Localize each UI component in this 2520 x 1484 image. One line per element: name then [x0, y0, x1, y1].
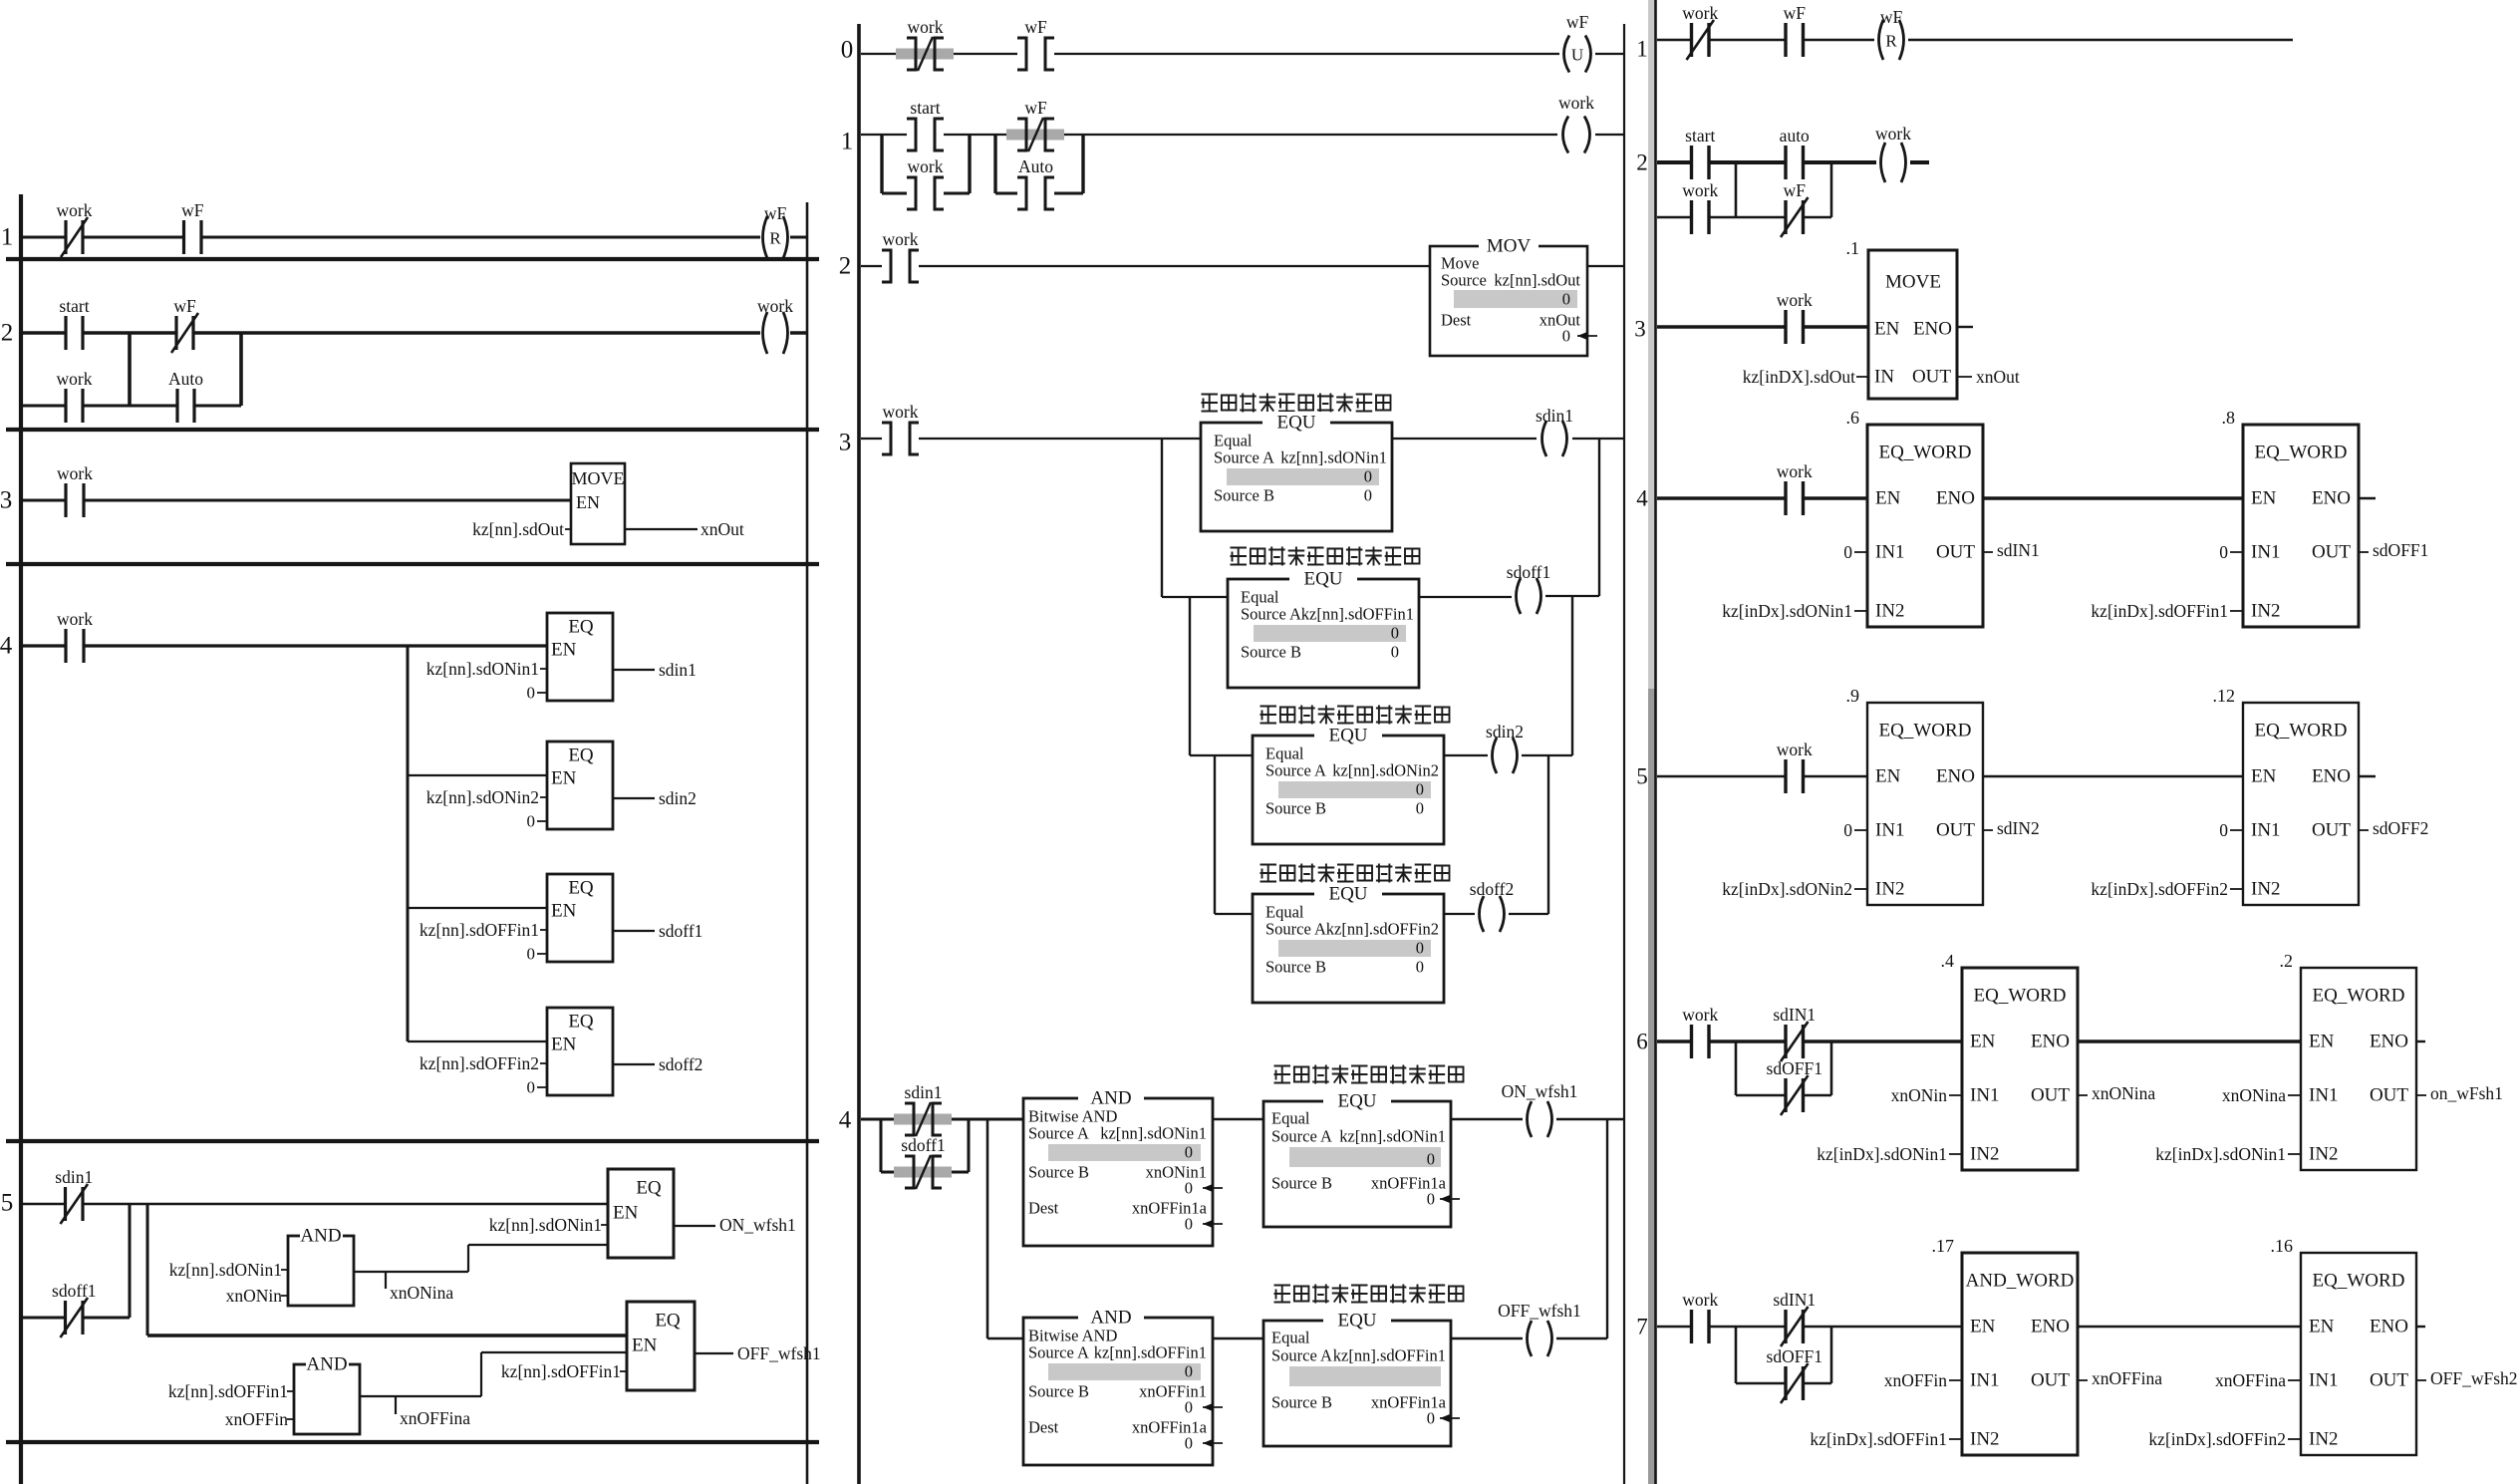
svg-text:0: 0: [1185, 1215, 1193, 1234]
contact sdIN1 NC (right rung 7): [1773, 1290, 1816, 1346]
AND_WORD block .17 (right rung 7): [1962, 1253, 2078, 1455]
cascade vertical sdin2-sdoff2 (middle rung 3): [1547, 755, 1549, 914]
contact wF NO (right rung 1): [1784, 3, 1807, 57]
wire OFF row (left rung 5): [147, 1334, 627, 1336]
svg-text:EQ: EQ: [568, 745, 594, 766]
caption Chinese (middle rung 3 EQU2): [1231, 547, 1420, 566]
svg-text:sdOFF1: sdOFF1: [1767, 1058, 1822, 1078]
svg-text:OFF_wfsh1: OFF_wfsh1: [1498, 1301, 1581, 1321]
svg-text:4: 4: [839, 1107, 852, 1134]
svg-text:sdoff1: sdoff1: [1507, 562, 1550, 582]
svg-text:2: 2: [1, 320, 14, 347]
svg-text:AND: AND: [300, 1226, 341, 1247]
wire AND2-EQU2 (middle rung 4): [1213, 1337, 1263, 1339]
svg-text:R: R: [1885, 32, 1897, 51]
svg-text:work: work: [1777, 290, 1813, 310]
svg-text:Source A: Source A: [1271, 1127, 1332, 1146]
svg-text:Source B: Source B: [1028, 1382, 1089, 1401]
contact work NO (left rung 3): [57, 463, 93, 517]
EQU block 2 (middle rung 3): [1228, 579, 1419, 688]
caption Chinese (middle rung 3 EQU3): [1260, 706, 1450, 725]
svg-text:kz[inDx].sdONin1: kz[inDx].sdONin1: [2155, 1144, 2286, 1164]
svg-text:Source A: Source A: [1265, 920, 1326, 939]
wire branch (right rung 2): [1657, 216, 1692, 219]
contact wF NC highlighted (middle rung 1): [1006, 98, 1064, 151]
svg-text:Dest: Dest: [1028, 1199, 1059, 1218]
svg-text:work: work: [908, 17, 944, 37]
svg-text:ENO: ENO: [2031, 1317, 2070, 1337]
contact work NC (left rung 1): [57, 200, 93, 257]
wire left rung 3: [23, 499, 66, 502]
svg-text:xnOFFin1a: xnOFFin1a: [1132, 1418, 1208, 1437]
svg-text:EN: EN: [1875, 766, 1901, 787]
svg-text:sdoff1: sdoff1: [52, 1281, 96, 1301]
svg-text:xnOFFin: xnOFFin: [1884, 1370, 1947, 1390]
contact work NO branch (left rung 2): [57, 369, 93, 423]
vertical joining OFF row to out (middle rung 4): [1606, 1119, 1608, 1338]
svg-text:kz[inDx].sdONin1: kz[inDx].sdONin1: [1817, 1144, 1947, 1164]
svg-text:auto: auto: [1780, 126, 1810, 146]
svg-text:xnOut: xnOut: [1976, 367, 2020, 387]
svg-text:kz[nn].sdONin1: kz[nn].sdONin1: [169, 1260, 282, 1280]
wire middle rung 2: [861, 265, 882, 267]
wire ENO .9 to EN .12 (right rung 5): [1983, 775, 2243, 777]
svg-text:2: 2: [839, 253, 852, 280]
coil work (right rung 2): [1875, 124, 1911, 182]
svg-text:kz[inDx].sdONin2: kz[inDx].sdONin2: [1722, 879, 1852, 899]
contact sdoff1 NC (left rung 5): [52, 1281, 96, 1337]
svg-text:EN: EN: [613, 1203, 639, 1224]
svg-text:wF: wF: [1880, 7, 1903, 27]
svg-text:sdoff1: sdoff1: [901, 1135, 945, 1155]
wire EQU out to ON_wfsh1 coil: [1451, 1118, 1523, 1120]
svg-text:EN: EN: [2251, 488, 2277, 509]
branch vertical right (right rung 2): [1830, 162, 1833, 217]
MOVE block (left rung 3): [571, 463, 625, 544]
caption Chinese (middle rung 3 EQU4): [1260, 864, 1450, 883]
output xnOut (right rung 3): [1957, 376, 1972, 378]
svg-text:Source B: Source B: [1265, 799, 1326, 818]
svg-text:xnOFFina: xnOFFina: [400, 1408, 470, 1428]
wire OFF coil to vertical: [1556, 1337, 1607, 1339]
wire middle rung 3 main: [861, 438, 882, 440]
svg-text:0: 0: [1364, 486, 1372, 505]
contact work NO (right rung 7): [1682, 1290, 1718, 1343]
contact work NO (right rung 6): [1682, 1005, 1718, 1058]
coil sdin1 (middle rung 3): [1536, 406, 1573, 456]
wire ENO .17 to EN .16 (right rung 7): [2078, 1326, 2301, 1328]
svg-text:EQ: EQ: [568, 878, 594, 899]
svg-text:EQ_WORD: EQ_WORD: [1974, 986, 2067, 1007]
svg-text:EN: EN: [1874, 319, 1900, 340]
contact start NO (left rung 2): [59, 296, 89, 350]
svg-text:ENO: ENO: [2312, 488, 2351, 509]
svg-text:Source B: Source B: [1241, 643, 1301, 662]
EQ_WORD block .4 (right rung 6): [1962, 968, 2078, 1170]
rung separator after left rung 4: [6, 1139, 819, 1143]
svg-text:IN1: IN1: [2251, 820, 2281, 841]
svg-text:.6: .6: [1846, 408, 1860, 428]
AND block row2 (middle rung 4): [1023, 1318, 1213, 1465]
svg-text:1: 1: [1, 224, 14, 251]
wire right rung 4: [1657, 496, 1786, 500]
svg-text:Source A: Source A: [1241, 605, 1301, 624]
svg-text:xnONin: xnONin: [226, 1286, 283, 1306]
contact wF NC (left rung 2): [171, 296, 198, 353]
svg-text:7: 7: [1636, 1315, 1648, 1339]
contact work NO (right rung 4): [1777, 461, 1813, 515]
svg-text:IN1: IN1: [1875, 542, 1905, 563]
svg-text:EQU: EQU: [1276, 413, 1315, 434]
svg-text:OUT: OUT: [2312, 542, 2351, 563]
wire right rung 1: [1657, 39, 1692, 41]
svg-text:0: 0: [1562, 327, 1570, 346]
contact sdoff1 NC highlighted (middle rung 4): [894, 1135, 952, 1189]
caption Chinese (middle rung 4 row2): [1274, 1285, 1464, 1304]
wire right rung 7 main: [1657, 1326, 1692, 1328]
rung separator after left rung 3: [6, 562, 819, 566]
wire Auto branch (middle rung 1): [995, 192, 1017, 195]
svg-text:0: 0: [1562, 290, 1570, 309]
svg-text:AND: AND: [306, 1354, 347, 1375]
svg-text:EQ_WORD: EQ_WORD: [1879, 443, 1972, 463]
svg-text:work: work: [1875, 124, 1911, 144]
svg-text:ENO: ENO: [2312, 766, 2351, 787]
wire ENO .6 to EN .8 (right rung 4): [1983, 496, 2243, 500]
contact work NO branch (right rung 2): [1682, 180, 1718, 234]
svg-text:EN: EN: [576, 492, 600, 512]
svg-text:sdIN1: sdIN1: [1773, 1290, 1816, 1310]
svg-text:OUT: OUT: [2031, 1085, 2070, 1106]
branch vertical to OFF row (middle rung 4): [986, 1119, 989, 1338]
svg-text:0: 0: [1185, 1143, 1193, 1162]
EQU block 1 (middle rung 3): [1201, 423, 1392, 531]
wire sdoff1 branch (left rung 5): [23, 1317, 66, 1320]
svg-text:xnOFFina: xnOFFina: [2092, 1368, 2162, 1388]
svg-text:Source A: Source A: [1271, 1346, 1332, 1365]
svg-text:wF: wF: [181, 200, 204, 220]
svg-text:Source B: Source B: [1265, 958, 1326, 977]
svg-text:0: 0: [1185, 1179, 1193, 1198]
svg-text:xnOFFin1: xnOFFin1: [1139, 1382, 1207, 1401]
svg-text:0: 0: [1427, 1150, 1435, 1169]
wire EN tap to EQ sdin2: [408, 774, 547, 776]
svg-text:wF: wF: [1024, 17, 1047, 37]
svg-text:work: work: [757, 296, 793, 316]
svg-text:.9: .9: [1846, 686, 1860, 706]
wire EN tap EQU4: [1215, 913, 1253, 915]
svg-text:kz[nn].sdONin1: kz[nn].sdONin1: [1280, 448, 1387, 467]
branch vertical x130 (left rung 5): [129, 1204, 132, 1318]
svg-text:kz[nn].sdOFFin1: kz[nn].sdOFFin1: [1333, 1346, 1446, 1365]
svg-text:sdin2: sdin2: [659, 788, 697, 808]
wire middle rung 1 main: [861, 134, 907, 136]
contact Auto NO branch (middle rung 1): [1017, 156, 1054, 209]
svg-text:EQU: EQU: [1337, 1091, 1376, 1112]
svg-text:0: 0: [1843, 542, 1852, 562]
svg-text:AND: AND: [1090, 1088, 1131, 1109]
svg-text:OUT: OUT: [2370, 1370, 2408, 1391]
contact sdOFF1 NC branch (right rung 6): [1767, 1058, 1822, 1115]
svg-text:1: 1: [841, 129, 854, 155]
svg-text:EQ: EQ: [568, 617, 594, 638]
svg-text:R: R: [769, 229, 781, 248]
contact start NO (right rung 2): [1685, 126, 1715, 179]
svg-text:OUT: OUT: [2370, 1085, 2408, 1106]
svg-text:EQU: EQU: [1328, 884, 1367, 905]
svg-text:work: work: [1558, 93, 1594, 113]
wire sdoff1 branch (middle rung 4): [881, 1171, 905, 1174]
wire left rung 2 main: [23, 331, 66, 335]
svg-text:Source B: Source B: [1271, 1393, 1332, 1412]
svg-text:Auto: Auto: [168, 369, 203, 389]
svg-text:0: 0: [1391, 624, 1399, 643]
svg-text:EQ_WORD: EQ_WORD: [2313, 1271, 2405, 1292]
svg-text:0: 0: [527, 1078, 536, 1097]
svg-text:kz[nn].sdONin1: kz[nn].sdONin1: [426, 659, 539, 679]
svg-text:Equal: Equal: [1271, 1329, 1310, 1347]
svg-text:EN: EN: [1970, 1317, 1996, 1337]
svg-text:sdIN1: sdIN1: [1997, 540, 2040, 560]
svg-text:OFF_wfsh1: OFF_wfsh1: [737, 1343, 821, 1363]
contact sdIN1 NC (right rung 6): [1773, 1005, 1816, 1061]
svg-text:Dest: Dest: [1441, 311, 1472, 330]
contact start NO (middle rung 1): [907, 98, 944, 150]
svg-text:4: 4: [0, 633, 13, 660]
svg-text:0: 0: [1416, 780, 1424, 799]
contact wF NO (middle rung 0): [1017, 17, 1054, 70]
EQ block sdoff2 (left rung 4): [547, 1008, 613, 1095]
svg-text:IN1: IN1: [1970, 1085, 2000, 1106]
svg-text:sdin1: sdin1: [659, 660, 697, 680]
svg-text:EQ_WORD: EQ_WORD: [1879, 721, 1972, 742]
contact wF NC branch (right rung 2): [1781, 180, 1809, 237]
svg-text:0: 0: [527, 945, 536, 964]
staircase AND2 output to EQ2 SourceB (left rung 5): [360, 1395, 481, 1397]
svg-text:0: 0: [2219, 542, 2228, 562]
svg-text:wF: wF: [1784, 3, 1807, 23]
svg-text:Source B: Source B: [1214, 486, 1274, 505]
svg-text:wF: wF: [1024, 98, 1047, 118]
svg-text:kz[inDX].sdOut: kz[inDX].sdOut: [1743, 367, 1855, 387]
svg-text:IN1: IN1: [2251, 542, 2281, 563]
wire OFF row (middle rung 4): [987, 1337, 1023, 1339]
svg-text:0: 0: [1185, 1362, 1193, 1381]
svg-text:ENO: ENO: [1936, 488, 1975, 509]
wire left rung 4 main: [23, 644, 66, 647]
wire right rung 5: [1657, 775, 1786, 777]
svg-text:start: start: [1685, 126, 1715, 146]
EQ_WORD block .9 (right rung 5): [1867, 703, 1983, 905]
svg-text:0: 0: [527, 684, 536, 703]
branch vertical left of start group (middle rung 1): [880, 135, 883, 193]
branch vertical right (right rung 7): [1830, 1327, 1833, 1383]
EQ block sdoff1 (left rung 4): [547, 874, 613, 962]
svg-text:Source B: Source B: [1271, 1174, 1332, 1193]
svg-text:OUT: OUT: [1936, 820, 1975, 841]
svg-text:work: work: [1682, 3, 1718, 23]
contact sdin1 NC highlighted (middle rung 4): [894, 1082, 952, 1136]
svg-text:.12: .12: [2213, 686, 2236, 706]
wire EN tap to EQ sdoff2: [408, 1040, 547, 1042]
svg-text:work: work: [883, 229, 919, 249]
svg-text:3: 3: [839, 430, 852, 456]
contact work NO (left rung 4): [57, 609, 93, 663]
svg-text:IN2: IN2: [2309, 1144, 2339, 1165]
splitter bar gray (right panel left edge): [1648, 0, 1655, 689]
svg-text:5: 5: [1, 1190, 14, 1217]
svg-text:Source: Source: [1441, 271, 1487, 290]
svg-text:EN: EN: [2309, 1317, 2335, 1337]
contact sdin1 NC (left rung 5): [55, 1167, 93, 1224]
svg-text:EN: EN: [632, 1336, 658, 1356]
svg-text:5: 5: [1636, 764, 1648, 789]
rung separator after left rung 2: [6, 428, 819, 432]
svg-text:EQ_WORD: EQ_WORD: [2255, 721, 2348, 742]
svg-text:kz[nn].sdOFFin1: kz[nn].sdOFFin1: [420, 920, 539, 940]
svg-text:work: work: [1682, 1290, 1718, 1310]
wire left rung 2 branch: [23, 405, 66, 408]
svg-text:.8: .8: [2222, 408, 2236, 428]
cascade vertical sdoff1-sdin2 (middle rung 3): [1571, 596, 1573, 755]
svg-text:.2: .2: [2280, 951, 2294, 971]
staircase AND1 output to EQ1 SourceB (left rung 5): [354, 1271, 468, 1273]
svg-text:.4: .4: [1941, 951, 1955, 971]
svg-text:2: 2: [1636, 150, 1648, 175]
svg-text:kz[nn].sdOut: kz[nn].sdOut: [1494, 271, 1580, 290]
svg-text:Source A: Source A: [1214, 448, 1274, 467]
svg-text:sdOFF2: sdOFF2: [2373, 818, 2428, 838]
right panel left power rail: [1654, 0, 1657, 1484]
EQ_WORD block .8 (right rung 4): [2243, 425, 2359, 627]
branch vertical 2 (middle rung 3): [1189, 597, 1191, 755]
svg-text:.16: .16: [2271, 1236, 2294, 1256]
contact work NC (right rung 1): [1682, 3, 1718, 60]
svg-text:0: 0: [841, 37, 854, 64]
output xnOut (left rung 3 MOVE): [625, 528, 698, 530]
svg-text:OFF_wFsh2: OFF_wFsh2: [2430, 1368, 2518, 1388]
svg-text:kz[nn].sdOFFin2: kz[nn].sdOFFin2: [420, 1053, 539, 1073]
wire left rung 5 main: [23, 1203, 66, 1205]
svg-text:IN1: IN1: [1970, 1370, 2000, 1391]
svg-text:0: 0: [2219, 820, 2228, 840]
svg-text:work: work: [1777, 740, 1813, 759]
svg-text:IN2: IN2: [2309, 1429, 2339, 1450]
ENO stub (right rung 7): [2416, 1326, 2425, 1328]
branch vertical left (left rung 2): [128, 333, 132, 406]
wire right rung 6 main: [1657, 1039, 1692, 1043]
branch vertical left (right rung 7): [1735, 1327, 1738, 1383]
svg-text:work: work: [57, 463, 93, 483]
svg-text:ENO: ENO: [1913, 319, 1952, 340]
branch vertical left (right rung 2): [1735, 162, 1738, 217]
svg-text:start: start: [59, 296, 89, 316]
wire work branch (middle rung 1): [882, 192, 907, 195]
svg-text:sdOFF1: sdOFF1: [2373, 540, 2428, 560]
AND block row1 (middle rung 4): [1023, 1098, 1213, 1246]
caption Chinese (middle rung 4 row1): [1274, 1065, 1464, 1084]
EQ_WORD block .2 (right rung 6): [2301, 968, 2416, 1170]
svg-text:0: 0: [1185, 1434, 1193, 1453]
svg-text:sdin1: sdin1: [905, 1082, 943, 1102]
svg-text:kz[nn].sdOFFin1: kz[nn].sdOFFin1: [1301, 605, 1414, 624]
middle panel left power rail: [857, 24, 861, 1484]
svg-text:IN1: IN1: [2309, 1370, 2339, 1391]
svg-text:0: 0: [1364, 467, 1372, 486]
ENO stub (right rung 3): [1957, 326, 1973, 328]
wire branch (right rung 6): [1736, 1094, 1786, 1097]
svg-text:kz[inDx].sdONin1: kz[inDx].sdONin1: [1722, 601, 1852, 621]
svg-text:xnOFFin1a: xnOFFin1a: [1132, 1199, 1208, 1218]
svg-text:start: start: [910, 98, 940, 118]
wire EQU2 out to sdoff1 coil: [1419, 596, 1512, 598]
svg-text:wF: wF: [1784, 180, 1807, 200]
svg-text:0: 0: [1427, 1409, 1435, 1428]
wire right rung 3: [1657, 325, 1786, 329]
svg-text:0: 0: [1416, 958, 1424, 977]
coil wF (R) reset (left rung 1): [763, 203, 788, 258]
EQ_WORD block .6 (right rung 4): [1867, 425, 1983, 627]
svg-text:EQ: EQ: [655, 1311, 681, 1332]
svg-text:work: work: [883, 402, 919, 422]
coil work (middle rung 1): [1558, 93, 1594, 153]
wire left rung 1: [23, 236, 66, 239]
svg-text:ENO: ENO: [2370, 1032, 2408, 1052]
EQ_WORD block .16 (right rung 7): [2301, 1253, 2416, 1455]
svg-text:Auto: Auto: [1018, 156, 1053, 176]
svg-text:sdoff1: sdoff1: [659, 921, 702, 941]
svg-text:IN2: IN2: [1970, 1429, 2000, 1450]
coil sdoff2 (middle rung 3): [1470, 879, 1514, 932]
svg-text:EN: EN: [1970, 1032, 1996, 1052]
svg-text:ON_wfsh1: ON_wfsh1: [1502, 1081, 1578, 1101]
branch vertical left of Auto group (middle rung 1): [993, 135, 996, 193]
wire middle rung 4 main: [861, 1118, 905, 1121]
contact work NO (middle rung 3): [882, 402, 919, 454]
wire AND1-EQU1 (middle rung 4): [1213, 1118, 1263, 1120]
svg-text:0: 0: [1843, 820, 1852, 840]
svg-text:kz[inDx].sdOFFin1: kz[inDx].sdOFFin1: [1810, 1429, 1947, 1449]
cascade vertical sdin1-sdoff1 (middle rung 3): [1598, 439, 1600, 596]
AND block 1 (left rung 5): [288, 1236, 354, 1306]
middle panel right power rail: [1623, 24, 1625, 1484]
EQU block row1 (middle rung 4): [1263, 1101, 1451, 1227]
svg-text:kz[nn].sdOFFin1: kz[nn].sdOFFin1: [168, 1381, 288, 1401]
svg-text:xnOut: xnOut: [1540, 311, 1581, 330]
svg-text:sdIN1: sdIN1: [1773, 1005, 1816, 1025]
EQ block sdin1 (left rung 4): [547, 613, 613, 701]
svg-text:ENO: ENO: [1936, 766, 1975, 787]
EQ_WORD block .12 (right rung 5): [2243, 703, 2359, 905]
svg-text:AND: AND: [1090, 1308, 1131, 1329]
svg-text:0: 0: [527, 812, 536, 831]
svg-text:OUT: OUT: [2312, 820, 2351, 841]
svg-text:MOVE: MOVE: [572, 468, 625, 488]
branch vertical left (middle rung 4): [880, 1119, 883, 1172]
svg-text:xnOFFin1a: xnOFFin1a: [1371, 1174, 1447, 1193]
branch vertical x148 (left rung 5): [146, 1204, 149, 1336]
svg-text:kz[nn].sdOFFin2: kz[nn].sdOFFin2: [1326, 920, 1439, 939]
svg-text:.1: .1: [1846, 238, 1860, 258]
svg-text:sdoff2: sdoff2: [659, 1054, 702, 1074]
svg-text:sdin1: sdin1: [1536, 406, 1573, 426]
svg-text:wF: wF: [173, 296, 196, 316]
svg-text:EQ: EQ: [636, 1178, 662, 1199]
svg-text:IN2: IN2: [2251, 879, 2281, 900]
svg-text:ON_wfsh1: ON_wfsh1: [719, 1215, 796, 1235]
contact work NO branch (middle rung 1): [907, 156, 944, 209]
wire EN tap to EQ sdoff1: [408, 907, 547, 909]
